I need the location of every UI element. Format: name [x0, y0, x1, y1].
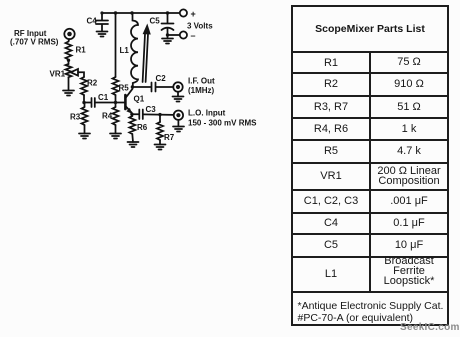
wire collector node to C2: [132, 86, 151, 88]
resistor R4: [102, 107, 119, 125]
node R7 junction: [158, 113, 161, 116]
svg-text:VR1: VR1: [50, 70, 66, 79]
wire top supply rail: [102, 12, 180, 14]
svg-text:R3: R3: [70, 113, 81, 122]
svg-text:C2: C2: [156, 74, 167, 83]
wire jack to R1: [68, 39, 71, 42]
ground below R7: [155, 145, 166, 150]
svg-text:L.O. Input: L.O. Input: [188, 109, 226, 118]
ground below C5: [162, 39, 173, 44]
wire R3 to ground: [84, 125, 86, 134]
svg-text:(.707 V RMS): (.707 V RMS): [10, 38, 59, 47]
svg-text:C1: C1: [98, 93, 109, 102]
label LO input: [188, 109, 257, 128]
node emitter junction: [130, 113, 133, 116]
resistor R7: [157, 115, 175, 142]
wire R5 to base node: [115, 95, 117, 107]
node rail-C5 junction: [166, 11, 169, 14]
svg-text:R6: R6: [137, 123, 148, 132]
svg-text:I.F. Out: I.F. Out: [188, 77, 215, 86]
svg-text:R5: R5: [119, 84, 130, 93]
ground below LO jack: [173, 127, 184, 132]
wire C5 to minus terminal: [168, 34, 180, 36]
svg-text:C4: C4: [87, 17, 98, 26]
wire LO jack to ground: [177, 120, 179, 127]
node rail-R5 junction: [114, 11, 117, 14]
wire R5 branch from rail: [115, 13, 117, 77]
wire C1 to base: [95, 102, 124, 104]
battery minus terminal: [180, 31, 196, 41]
wire node to C1: [84, 102, 91, 104]
svg-text:Q1: Q1: [134, 95, 145, 104]
svg-text:(1MHz): (1MHz): [188, 86, 215, 95]
svg-text:C5: C5: [150, 17, 161, 26]
RF input jack: [10, 29, 75, 47]
node collector junction: [131, 85, 134, 88]
ground below IF jack: [173, 97, 184, 102]
ground below R4: [110, 134, 121, 139]
LO input jack: [174, 111, 183, 120]
ground below VR1: [63, 91, 74, 96]
node C5 minus junction: [166, 33, 169, 36]
resistor R6: [129, 114, 147, 134]
potentiometer VR1: [50, 60, 85, 91]
svg-text:R4: R4: [102, 112, 113, 121]
resistor R2: [81, 77, 98, 95]
resistor R3: [70, 103, 88, 126]
svg-text:–: –: [191, 31, 196, 41]
wire C2 to IF jack: [156, 86, 173, 88]
svg-text:R7: R7: [164, 133, 175, 142]
svg-text:C3: C3: [146, 105, 157, 114]
battery plus terminal: [180, 9, 196, 19]
ground below R6: [128, 142, 139, 147]
svg-text:R2: R2: [87, 79, 98, 88]
svg-text:L1: L1: [120, 46, 130, 55]
ground below C4: [97, 32, 108, 37]
ground below R3: [79, 134, 90, 139]
parts list table: [291, 5, 449, 326]
resistor R1: [66, 42, 87, 60]
node R1-VR1 junction: [67, 59, 70, 62]
wire R4 to ground: [115, 125, 117, 134]
capacitor C4: [87, 13, 109, 32]
node base junction: [114, 101, 117, 104]
L1 tuning arrow: [143, 24, 151, 83]
wire emitter to C3: [132, 113, 139, 115]
wire R6 to ground: [131, 134, 134, 142]
capacitor C1: [92, 93, 109, 107]
wire R2 to node: [83, 95, 85, 103]
svg-text:150 - 300 mV RMS: 150 - 300 mV RMS: [188, 119, 257, 128]
svg-text:+: +: [191, 9, 196, 19]
watermark: [400, 323, 460, 332]
wire IF jack to ground: [177, 92, 179, 97]
svg-text:3 Volts: 3 Volts: [187, 22, 213, 31]
svg-text:R1: R1: [76, 46, 87, 55]
inductor L1: [120, 13, 139, 87]
wire C3 to LO jack: [143, 113, 174, 116]
node rail-C4 junction: [100, 11, 103, 14]
wire R7 to ground: [159, 140, 161, 145]
node R2-R3-C1 junction: [82, 101, 85, 104]
capacitor C5: [150, 13, 174, 39]
transistor Q1: [125, 89, 144, 114]
capacitor C2: [152, 74, 167, 92]
IF output jack: [173, 82, 182, 91]
resistor R5: [113, 77, 130, 95]
label IF out: [188, 77, 215, 96]
node rail-L1 junction: [130, 11, 133, 14]
capacitor C3: [139, 105, 156, 119]
